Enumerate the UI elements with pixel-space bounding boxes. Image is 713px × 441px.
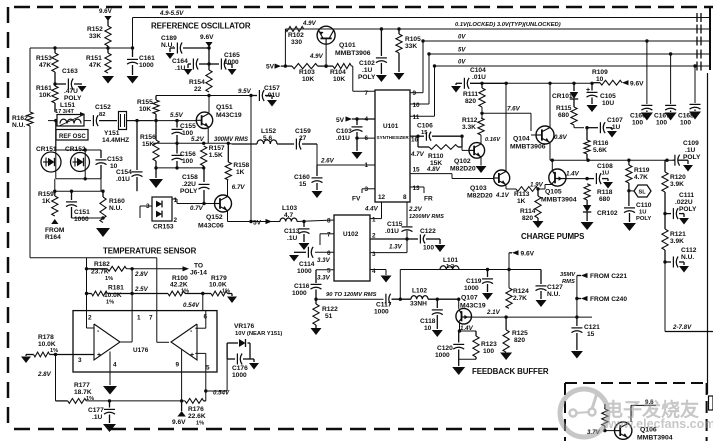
power 9.6V u176 [172,401,186,426]
ground CR102 [581,222,594,230]
svg-text:REFERENCE OSCILLATOR: REFERENCE OSCILLATOR [151,22,251,31]
wire VCO feed [664,262,666,332]
svg-text:100: 100 [632,120,643,127]
svg-text:3.9K: 3.9K [670,181,684,188]
resistor R182 [87,261,127,282]
capacitor C111 [663,192,697,225]
bus end ticks [697,13,701,71]
svg-text:300MV RMS: 300MV RMS [214,137,248,143]
svg-text:R160: R160 [109,198,125,205]
svg-text:10U: 10U [602,100,614,107]
svg-text:CHARGE PUMPS: CHARGE PUMPS [521,232,584,241]
svg-text:M43C19: M43C19 [216,112,242,119]
net 5.5V label [170,112,184,119]
svg-text:1000: 1000 [74,216,89,223]
capacitor C112 [663,247,696,273]
capacitor C102 [358,27,387,82]
svg-text:C121: C121 [584,324,600,331]
wire Q105 emitter row [566,177,589,180]
svg-text:R114: R114 [520,208,536,215]
power 5V q101 [266,64,292,71]
svg-text:.47U: .47U [64,88,78,95]
wire bus 0V b [435,65,711,67]
svg-text:FR: FR [424,196,433,203]
svg-text:2.8V: 2.8V [134,271,149,278]
resistor R115 [556,105,577,125]
pin u176-4 [113,362,117,369]
wire to J6-14 [127,263,208,277]
watermark elecfans [560,389,713,437]
svg-text:.01U: .01U [472,74,486,81]
node j4 [207,94,252,97]
wire CR bottom row [56,177,101,180]
svg-text:1200MV RMS: 1200MV RMS [409,214,444,220]
diode block CR153 [146,197,178,231]
label U176 [133,347,149,354]
svg-text:MMBT3904: MMBT3904 [637,435,673,441]
svg-text:MMBT3906: MMBT3906 [335,50,371,57]
svg-text:5: 5 [327,268,331,275]
varactor VR176 [227,323,282,359]
svg-text:www.elecfans.com: www.elecfans.com [603,417,713,431]
svg-text:10: 10 [413,102,421,109]
svg-text:33K: 33K [89,33,101,40]
resistor R118 [584,184,613,203]
inductor L101 [440,257,459,270]
ground R178 [21,355,31,364]
net 3.3V label a [317,257,331,264]
pin 9 label [413,90,417,97]
resistor R120 [662,160,686,192]
wire pin15 [410,166,494,179]
transistor Q151 [196,104,242,129]
pin 8 label [403,194,407,201]
net 1.3V label [389,244,403,251]
svg-text:820: 820 [514,337,525,344]
svg-text:4.7K: 4.7K [634,174,648,181]
label REF OSC box [56,130,88,141]
svg-text:R102: R102 [288,32,304,39]
capacitor C155 [172,121,197,144]
wire row 297 [314,298,439,301]
net 300MV RMS label [214,137,248,143]
svg-text:U176: U176 [133,347,149,354]
capacitor C160 [294,165,323,198]
svg-text:3.3V: 3.3V [317,257,331,264]
svg-text:C168: C168 [678,113,694,120]
wire row 401 [86,399,185,402]
title REFERENCE OSCILLATOR [151,22,251,31]
svg-text:10K: 10K [39,92,51,99]
wire bus 5V [429,53,710,55]
capacitor C164 [172,58,209,75]
svg-text:C114: C114 [299,261,315,268]
wire Q152 collector [227,180,229,197]
svg-text:18.7K: 18.7K [74,389,92,396]
svg-text:2.6V: 2.6V [320,158,335,165]
wire Q102 collector [480,135,482,144]
svg-text:R164: R164 [45,234,61,241]
svg-text:1%: 1% [50,348,58,354]
svg-text:1.3V: 1.3V [389,244,403,251]
resistor R102 [285,26,304,46]
svg-text:C166: C166 [630,113,646,120]
wire row 9.5V [156,95,251,97]
pin u2-7 [327,232,331,239]
wire xtal row [48,119,91,122]
svg-text:C189: C189 [161,35,177,42]
svg-text:L152: L152 [261,128,276,135]
wire Q104 base [531,113,536,135]
net 2.8V label t2 [37,371,52,378]
svg-text:23.7K: 23.7K [91,269,109,276]
svg-text:U102: U102 [343,231,359,238]
svg-text:CR102: CR102 [597,210,618,217]
net 0.1V(LOCKED) label [455,22,561,28]
wire 7.6V row [482,106,531,119]
svg-text:3: 3 [78,357,82,364]
wire pin4 gnd [370,270,392,283]
svg-text:R159: R159 [38,191,54,198]
svg-text:3.3V: 3.3V [317,275,331,282]
svg-text:C165: C165 [224,52,240,59]
capacitor C110 [624,191,652,222]
svg-text:R121: R121 [670,231,686,238]
svg-text:POLY: POLY [679,206,697,213]
wire temp left col [85,258,88,311]
net 3.7V label [587,429,601,436]
capacitor C114 [289,247,334,275]
svg-text:C158: C158 [182,174,198,181]
svg-text:33NH: 33NH [410,301,427,308]
net 35MV RMS label [560,272,576,285]
resistor R111 [463,83,485,107]
svg-text:R115: R115 [556,105,572,112]
svg-text:0V: 0V [458,35,466,41]
pin 12 label [378,194,386,201]
svg-text:1.5K: 1.5K [209,152,223,159]
svg-text:.1U: .1U [685,147,695,154]
net 1.9V label [530,182,544,189]
wire pin8 drop [406,202,408,239]
svg-text:C102: C102 [359,60,375,67]
pin 7 label [364,90,368,97]
sheet border bottom [14,428,562,431]
net 4.4V label [364,206,379,213]
net 4.9-5.5V label [159,10,184,17]
capacitor C117 [374,294,411,316]
inductor L151 [55,102,85,126]
resistor R181 [87,285,133,306]
svg-text:R104: R104 [330,69,346,76]
capacitor C166 [630,39,653,126]
svg-text:C154: C154 [116,169,132,176]
pin u176-3 [78,357,82,364]
svg-text:R154: R154 [189,79,205,86]
svg-text:0.8V: 0.8V [554,134,568,141]
svg-text:4.9V: 4.9V [302,20,317,27]
svg-text:.01U: .01U [116,176,130,183]
sheet border left [7,7,10,430]
svg-text:9: 9 [413,90,417,97]
svg-text:C120: C120 [437,345,453,352]
svg-text:R120: R120 [670,174,686,181]
capacitor C168 [678,64,701,126]
capacitor C127 [509,270,563,308]
svg-text:Q152: Q152 [206,214,223,221]
svg-text:Q151: Q151 [216,104,233,111]
svg-text:.022U: .022U [675,199,693,206]
svg-text:10K: 10K [139,106,151,113]
net 2.2V label [408,206,423,213]
svg-text:.1U: .1U [175,65,185,72]
resistor R104 [318,64,352,84]
svg-text:2: 2 [372,233,376,240]
wire R176 up [204,372,208,401]
svg-text:13: 13 [413,185,421,192]
svg-text:C108: C108 [597,163,613,170]
wire CR top row [56,121,101,152]
svg-text:0.54V: 0.54V [183,302,200,309]
pin u2-2 [372,233,376,240]
pin u176-6 [204,314,208,321]
pin u2-5 [327,268,331,275]
svg-text:L103: L103 [282,205,297,212]
svg-text:15: 15 [587,331,595,338]
capacitor C154 [116,121,143,192]
svg-text:100: 100 [680,120,691,127]
svg-text:4.9V: 4.9V [309,53,324,60]
svg-text:5V: 5V [458,48,466,54]
capacitor C159 [277,128,317,150]
resistor R121 [662,214,686,250]
svg-text:R162: R162 [12,115,28,122]
svg-text:R181: R181 [108,285,124,292]
transistor Q152 [198,195,232,230]
capacitor C106 [410,123,464,141]
svg-text:10: 10 [424,325,432,332]
pin u2-1 [372,217,376,224]
wire pin3 FV [352,189,375,203]
wire Q103 base [0,0,1,1]
svg-text:10V (NEAR Y151): 10V (NEAR Y151) [235,331,282,337]
wire emitter row to L152 [228,142,232,145]
component SL [629,185,651,197]
capacitor C104 [451,67,506,93]
node j9 [480,112,483,115]
svg-text:M82D20: M82D20 [467,193,493,200]
resistor R109 [592,69,622,85]
svg-text:5V: 5V [336,117,345,124]
svg-text:90 TO 120MV RMS: 90 TO 120MV RMS [326,292,377,298]
svg-text:10K: 10K [333,76,345,83]
svg-text:RMS: RMS [562,279,575,285]
node j2 [53,82,56,85]
connector box right [709,396,713,410]
ground R151 [102,76,114,84]
svg-text:.22U: .22U [182,181,196,188]
svg-text:Q103: Q103 [470,185,487,192]
net 1.4V q105 [566,171,580,178]
wire pin7 stub [320,234,334,245]
resistor R176 [185,399,206,427]
svg-text:11: 11 [413,114,420,121]
wire amp1 out [120,311,132,342]
svg-text:Q105: Q105 [545,189,562,196]
svg-text:5V: 5V [266,64,275,71]
resistor R113 [514,187,538,205]
resistor R161 [36,72,58,112]
svg-text:FROM C240: FROM C240 [590,296,627,303]
svg-text:35MV: 35MV [560,272,576,278]
svg-text:C122: C122 [420,228,436,235]
wire row160 [550,159,673,162]
pin u2-4 [372,268,376,275]
svg-text:1%: 1% [106,300,114,306]
capacitor C122 [407,228,446,252]
svg-text:1000: 1000 [292,290,307,297]
wire Q151 collector [208,96,210,113]
svg-text:1000: 1000 [232,372,247,379]
svg-text:5.5V: 5.5V [170,112,184,119]
node j3 [207,46,210,65]
wire pin9 drop [181,372,183,401]
svg-text:C159: C159 [295,128,311,135]
node bus drop at C161 [132,18,134,49]
svg-text:C152: C152 [95,104,111,111]
net 2.1V label [486,309,501,316]
svg-text:15: 15 [421,130,428,136]
resistor R123 [459,331,497,359]
node j7 [101,216,104,219]
resistor R157 [201,145,225,168]
svg-text:680: 680 [558,112,569,119]
wire row emitter-bottom [156,166,204,169]
wire Q107 emitter [458,323,461,333]
svg-text:C167: C167 [654,113,670,120]
svg-text:820: 820 [522,215,533,222]
svg-text:4.9-5.5V: 4.9-5.5V [159,10,184,17]
wire row83 [480,82,593,85]
svg-text:100: 100 [656,120,667,127]
svg-text:POLY: POLY [64,95,82,102]
capacitor C113 [284,222,310,251]
crystal Y151 [102,112,129,145]
svg-text:FV: FV [352,196,361,203]
node j10 [536,187,539,190]
wire xtal to base [127,120,154,122]
svg-text:POLY: POLY [636,216,651,222]
power 9.6V top [99,8,113,26]
wire amp2 minus [195,311,206,328]
svg-text:R111: R111 [463,91,478,98]
wire Q151 emitter [207,128,209,144]
svg-text:R161: R161 [36,85,52,92]
svg-text:C112: C112 [681,247,697,254]
svg-text:2: 2 [88,315,92,322]
svg-text:N.U.: N.U. [109,205,122,212]
resistor R105 [394,27,422,80]
svg-text:2-7.8V: 2-7.8V [672,324,692,331]
power 9.6V cp [622,80,644,87]
pin 11 label [413,114,420,121]
svg-text:C103: C103 [336,128,352,135]
svg-text:5.6K: 5.6K [593,147,607,154]
svg-text:SYNTHESIZER: SYNTHESIZER [377,135,410,140]
wire Q103 collector [505,83,507,170]
svg-text:C157: C157 [264,85,280,92]
svg-text:+: + [97,352,101,359]
svg-text:C151: C151 [74,209,90,216]
svg-text:3.9K: 3.9K [670,238,684,245]
net 0V label b [458,60,466,66]
svg-text:N.U.: N.U. [547,291,560,298]
svg-text:R124: R124 [513,288,529,295]
ic U101 [375,90,410,202]
capacitor C161 [127,48,156,84]
net 4.1V label [495,192,510,199]
pin 10 label [413,102,421,109]
svg-text:C164: C164 [172,58,188,65]
svg-text:1000: 1000 [297,268,312,275]
capacitor C119 [464,270,493,301]
wire 2.6V [317,144,375,165]
resistor R119 [626,160,650,192]
svg-text:10.0K: 10.0K [209,282,227,289]
resistor R114 [520,189,544,228]
wire CR153 pin3 [140,206,152,218]
capacitor C163 [55,68,87,102]
resistor R153 [36,48,58,72]
resistor R179 [201,275,237,303]
svg-text:7: 7 [364,90,368,97]
wire FROM C221 [577,273,627,280]
resistor R112 [462,117,484,135]
svg-text:R178: R178 [38,334,54,341]
svg-text:Q104: Q104 [513,136,530,143]
capacitor C152 [93,104,117,126]
svg-text:2.8V: 2.8V [37,371,52,378]
net 0.54V label b [213,390,230,397]
capacitor C153 [96,150,124,179]
svg-text:0V: 0V [458,60,466,66]
svg-text:1.4V: 1.4V [566,171,580,178]
svg-text:10: 10 [596,76,604,83]
svg-text:1K: 1K [517,198,526,205]
capacitor C156 [172,143,197,168]
transistor Q103 [467,170,510,200]
power 9.6V fb [509,250,535,257]
varactor CR151 [36,121,61,179]
svg-text:1K: 1K [42,198,51,205]
inductor L152 [232,128,277,144]
capacitor C165 [209,52,240,75]
svg-text:2.7K: 2.7K [513,295,527,302]
svg-text:2.1V: 2.1V [486,309,501,316]
capacitor C115 [370,221,413,241]
svg-text:12: 12 [378,194,386,201]
net 9.5V label [238,88,252,95]
capacitor C108 [587,163,613,189]
power 9.6V osc [200,34,214,64]
svg-text:5.2V: 5.2V [191,136,205,143]
ground C110 [623,223,636,231]
wire Q105 collector [551,160,553,170]
vco dashed box [565,383,707,441]
wire Q101 emitter [304,28,318,30]
svg-text:4.1V: 4.1V [495,192,510,199]
wire vco 9.6V [631,399,656,422]
